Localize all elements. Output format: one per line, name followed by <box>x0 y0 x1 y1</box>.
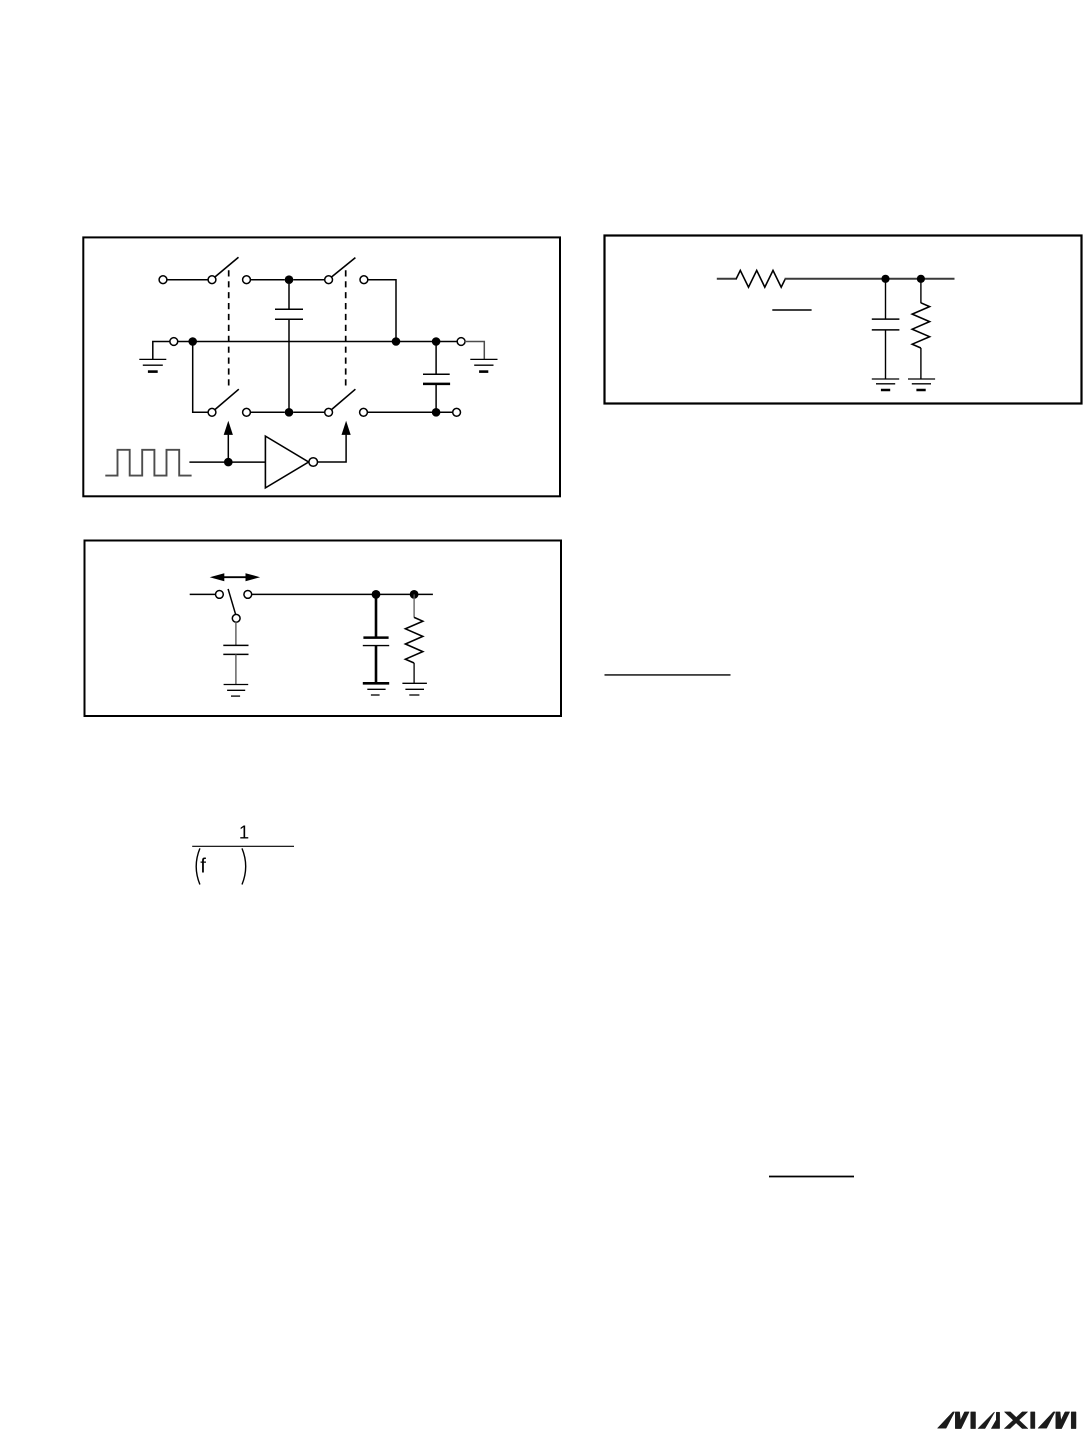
wire clock to inverter <box>189 461 265 463</box>
switch S2b blade <box>331 389 355 410</box>
clock waveform <box>105 450 191 476</box>
switch S3 terminal B <box>244 591 252 599</box>
formula fraction bar <box>192 845 294 847</box>
svg-text:1: 1 <box>239 821 249 842</box>
figure 2 frame <box>605 236 1082 404</box>
wire (mid bus) <box>177 341 436 343</box>
figure 3 frame <box>85 541 562 717</box>
node dot C5 <box>372 590 381 599</box>
ground C5 <box>363 683 389 695</box>
terminal T1 <box>159 276 167 284</box>
node dot <box>188 337 197 346</box>
resistor R2 (shunt) <box>912 279 929 379</box>
node dot <box>432 337 441 346</box>
svg-text:f: f <box>200 855 206 878</box>
rule line B <box>769 1176 854 1178</box>
node dot clock <box>224 458 233 467</box>
terminal T8 <box>453 408 461 416</box>
arrowhead 1 <box>224 421 233 435</box>
wire <box>250 279 285 281</box>
ground R3 <box>402 683 427 695</box>
switch S1b blade <box>215 389 239 410</box>
node dot <box>392 337 401 346</box>
capacitor C1 (flying) <box>275 284 303 412</box>
wire output <box>785 278 955 280</box>
capacitor C5 (bold) <box>363 594 389 683</box>
logo X stroke2 <box>1004 1412 1027 1429</box>
logo M1 stroke2 <box>955 1412 969 1429</box>
logo M2 stroke1 <box>1038 1412 1055 1428</box>
terminal T5 <box>457 338 465 346</box>
wire output <box>251 593 433 595</box>
logo M1 stroke1 <box>938 1412 955 1428</box>
ground R2 <box>908 379 935 390</box>
logo M2 stroke3 <box>1071 1412 1076 1429</box>
switch S3 blade <box>228 589 236 615</box>
rule line A <box>605 674 731 676</box>
logo A stroke1 <box>978 1412 995 1428</box>
node dot bottom of C2 <box>432 408 441 417</box>
wire <box>167 279 209 281</box>
capacitor C3 <box>872 279 900 379</box>
terminal T4 <box>170 338 178 346</box>
ground C4 <box>224 685 249 697</box>
wire arrow 1 <box>227 435 229 463</box>
terminal T6 <box>243 408 251 416</box>
switch S2b pivot <box>325 408 333 416</box>
switch S1 blade <box>215 257 239 277</box>
wire <box>293 279 325 281</box>
formula left parenthesis <box>196 848 200 884</box>
inverter U1 <box>265 436 308 488</box>
logo A stroke2 <box>991 1412 999 1428</box>
control line phi2 (dashed) <box>345 270 347 385</box>
terminal T2 <box>243 276 251 284</box>
wire <box>293 411 325 413</box>
logo X stroke1 <box>1004 1412 1028 1429</box>
wire <box>250 411 285 413</box>
ground C3 <box>872 379 899 390</box>
resistor R1 (series) <box>736 270 785 287</box>
node dot C3 <box>881 275 889 283</box>
switch S3 terminal A <box>216 591 224 599</box>
switch S1b pivot <box>208 408 216 416</box>
logo M1 stroke3 <box>971 1412 976 1429</box>
capacitor C2 (output) <box>423 345 450 412</box>
logo M2 stroke2 <box>1056 1412 1070 1429</box>
wire inverter output <box>318 435 347 462</box>
node dot R2 <box>917 275 925 283</box>
arrowhead left <box>210 573 225 581</box>
label underline (REQ) <box>772 309 811 311</box>
double-headed arrow <box>222 576 248 578</box>
switch S2 pivot <box>325 276 333 284</box>
logo I <box>1031 1412 1035 1429</box>
switch S1 pivot <box>208 276 216 284</box>
switch S3 pole <box>232 614 240 622</box>
node dot R3 <box>410 590 419 599</box>
terminal T3 <box>360 276 368 284</box>
MAXIM logo <box>938 1412 1077 1429</box>
formula right parenthesis <box>242 848 246 884</box>
ground (left) <box>139 359 166 371</box>
wire to left ground <box>153 342 171 360</box>
inverter bubble <box>309 458 318 467</box>
node dot top of C1 <box>285 275 294 284</box>
ground (right) <box>470 359 497 371</box>
terminal T7 <box>360 408 368 416</box>
wire input <box>190 593 216 595</box>
wire left branch down <box>193 345 209 412</box>
capacitor C4 (hold) <box>223 622 248 685</box>
figure 1 frame <box>83 237 560 496</box>
arrowhead right <box>246 573 261 581</box>
resistor R3 <box>405 594 422 683</box>
wire input <box>717 278 737 280</box>
wire dot to T5 <box>436 341 458 343</box>
arrowhead 2 <box>342 421 351 435</box>
node dot bottom of C1 <box>285 408 294 417</box>
control line phi1 (dashed) <box>228 270 230 385</box>
wire <box>367 411 453 413</box>
switch S2 blade <box>331 258 355 278</box>
wire to right ground <box>465 342 485 360</box>
wire <box>367 280 396 342</box>
